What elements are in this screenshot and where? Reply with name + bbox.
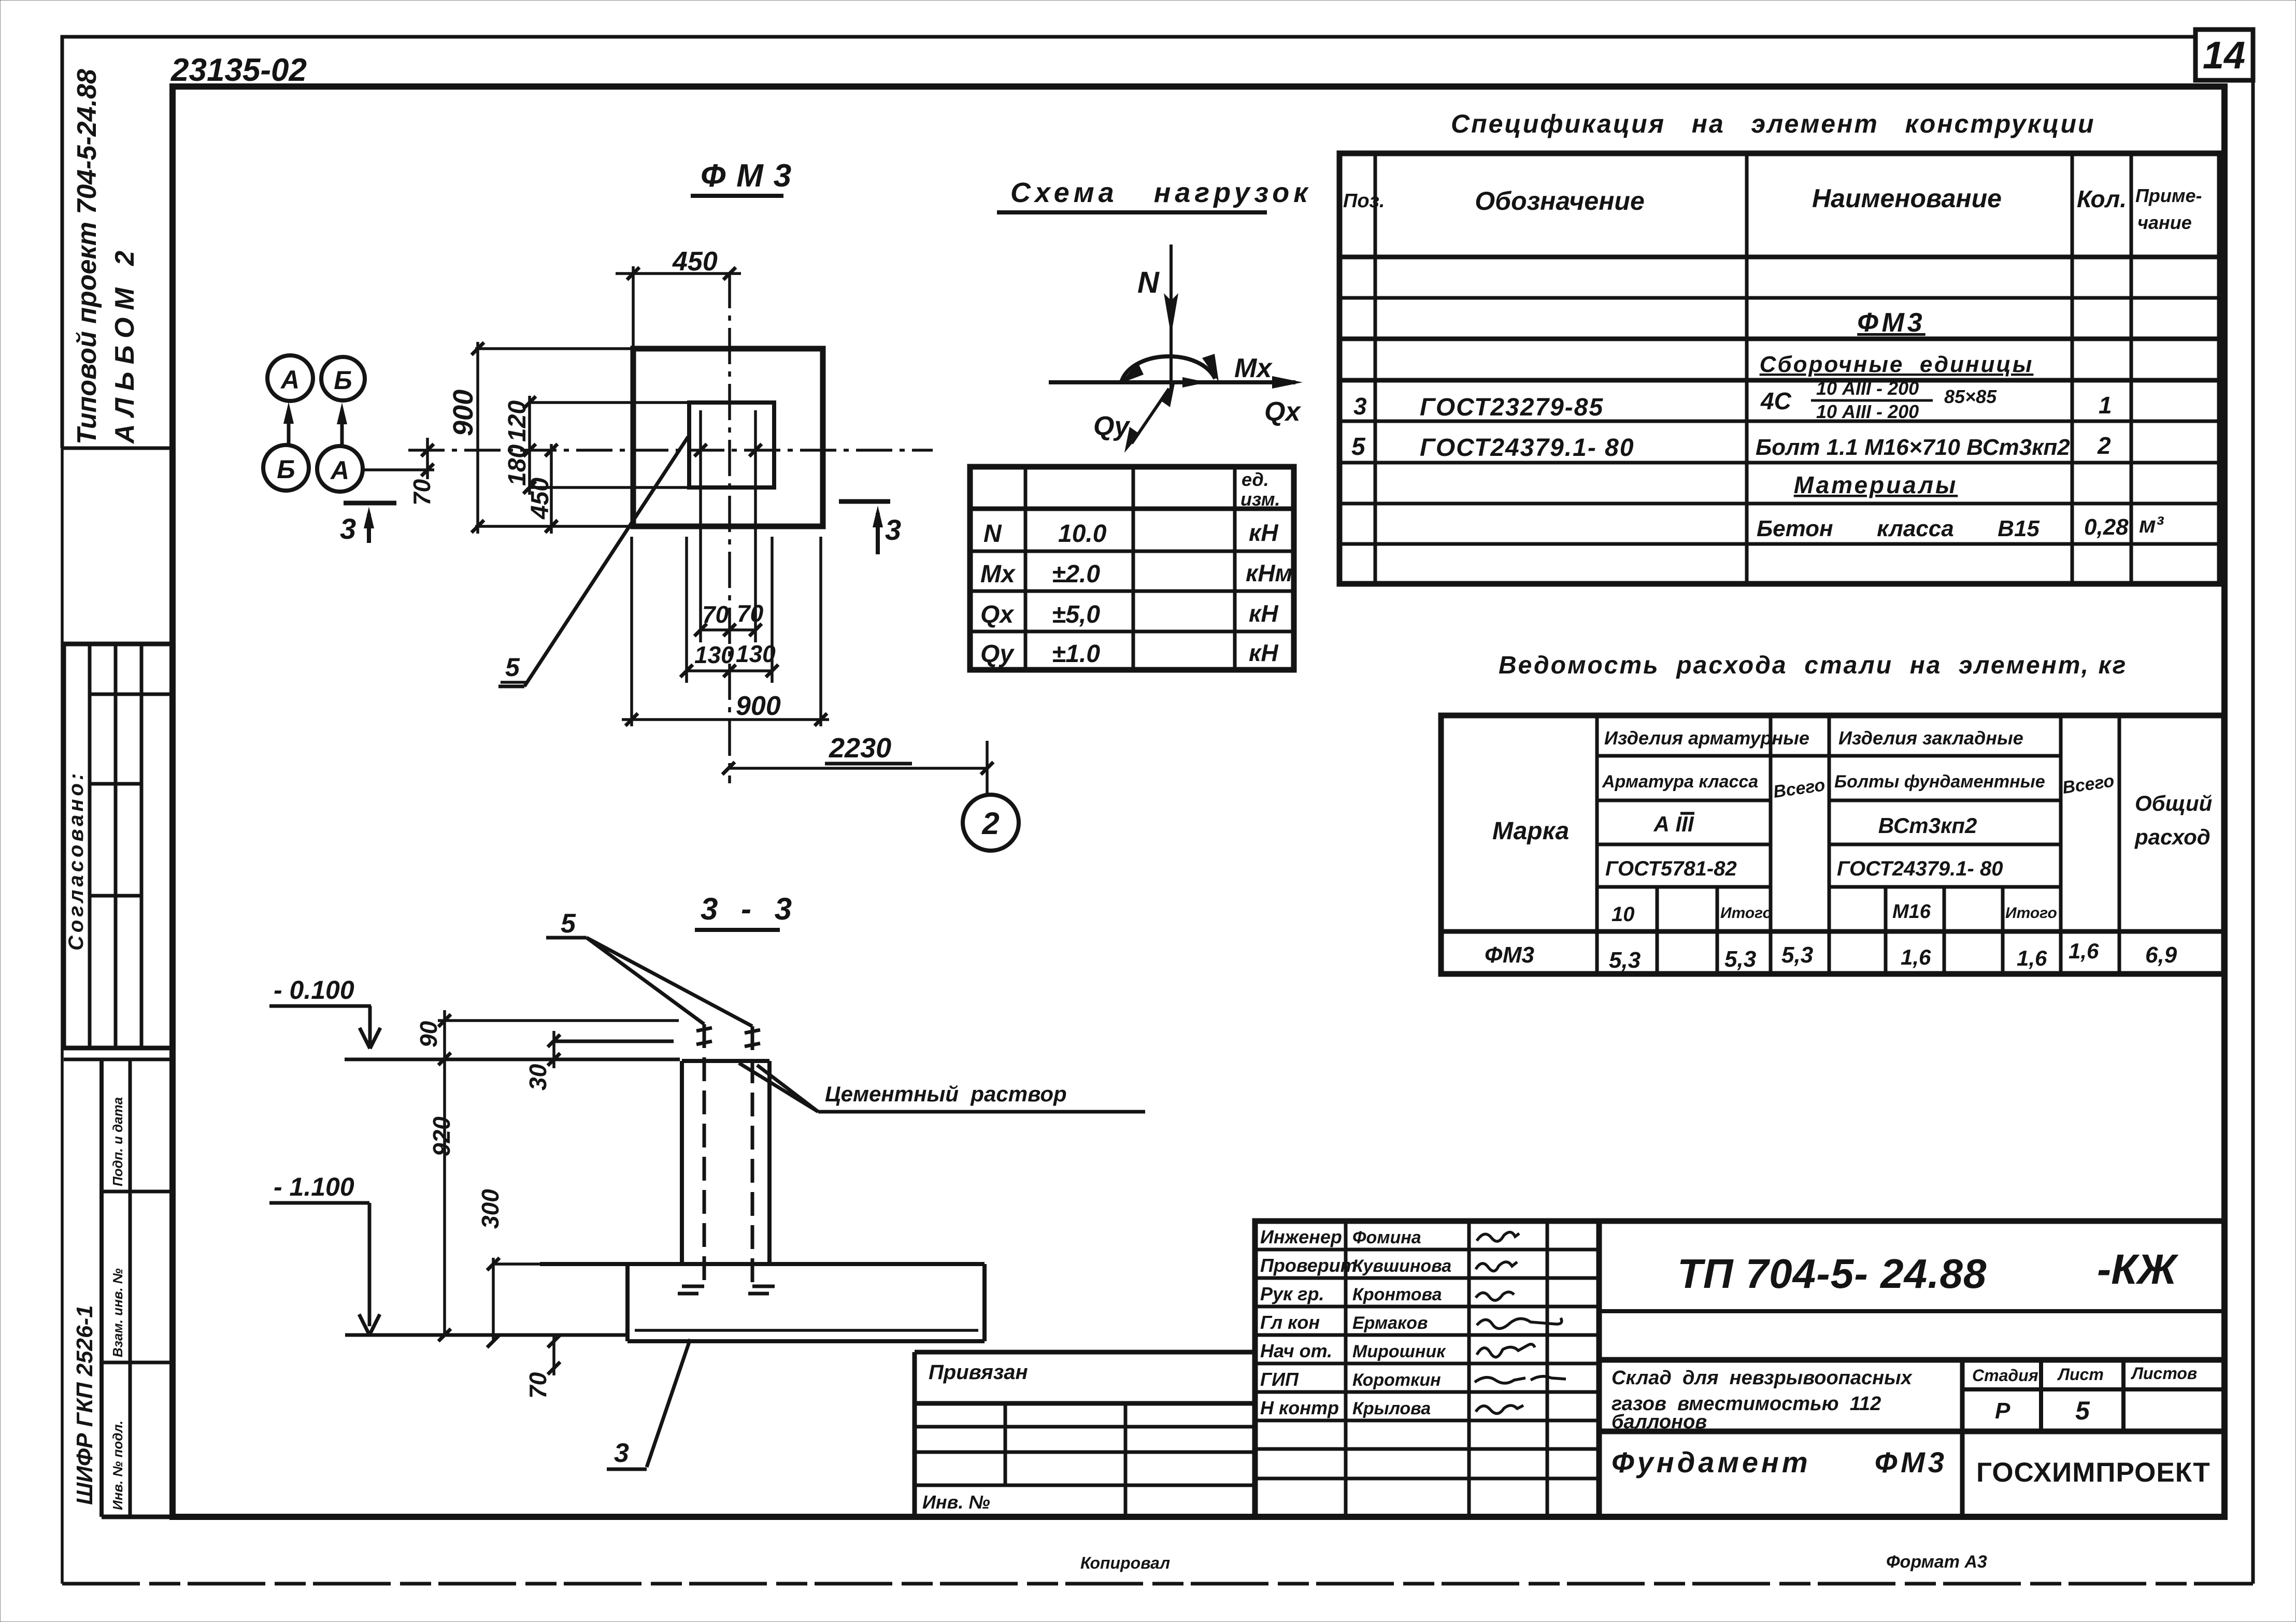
- svg-text:Всего: Всего: [2061, 771, 2116, 798]
- svg-text:Ведомость расхода стали на: Ведомость расхода стали на элемент, кг: [1499, 652, 2127, 679]
- svg-text:Общий: Общий: [2135, 791, 2212, 815]
- privyazan box: [915, 1352, 1255, 1517]
- Qy diagonal double arrow: [1132, 389, 1169, 443]
- dim 130|130: [687, 669, 772, 672]
- svg-text:ГИП: ГИП: [1260, 1369, 1299, 1390]
- svg-text:ШИФР ГКП 2526-1: ШИФР ГКП 2526-1: [72, 1305, 97, 1505]
- N arrow (down): [1170, 245, 1173, 390]
- svg-text:Инв. №: Инв. №: [922, 1491, 990, 1513]
- dims 120/180: [528, 401, 689, 404]
- svg-text:ФМ3: ФМ3: [701, 158, 802, 194]
- svg-text:1: 1: [2099, 392, 2112, 419]
- svg-text:23135-02: 23135-02: [170, 52, 307, 88]
- axis line to circle 2: [986, 741, 989, 795]
- svg-text:Кол.: Кол.: [2077, 185, 2127, 212]
- dim 30: [552, 1031, 555, 1068]
- svg-text:1,6: 1,6: [2017, 946, 2047, 970]
- foundation outline: [633, 349, 823, 526]
- svg-text:Рук гр.: Рук гр.: [1260, 1283, 1324, 1304]
- svg-text:Нач от.: Нач от.: [1260, 1340, 1332, 1361]
- svg-text:ФМ3: ФМ3: [1857, 308, 1925, 338]
- soglasovano stamp: [64, 644, 173, 1048]
- svg-text:А: А: [280, 365, 300, 394]
- big right box: [1599, 1221, 2224, 1517]
- svg-text:120: 120: [504, 400, 531, 442]
- svg-text:расход: расход: [2134, 825, 2211, 849]
- dim 450 top: [632, 266, 635, 349]
- svg-text:N: N: [1137, 266, 1160, 299]
- svg-text:Б: Б: [277, 455, 295, 484]
- svg-text:Привязан: Привязан: [929, 1361, 1028, 1384]
- svg-text:А III: А III: [1653, 812, 1694, 836]
- svg-text:14: 14: [2203, 34, 2245, 77]
- svg-text:-КЖ: -КЖ: [2097, 1246, 2179, 1293]
- svg-text:5,3: 5,3: [1781, 942, 1813, 968]
- svg-text:5: 5: [1351, 433, 1366, 461]
- svg-text:ФМ3: ФМ3: [1485, 942, 1534, 968]
- svg-text:Обозначение: Обозначение: [1475, 186, 1645, 216]
- svg-text:м³: м³: [2139, 512, 2164, 538]
- svg-text:2230: 2230: [829, 733, 891, 764]
- svg-text:М16: М16: [1892, 901, 1931, 923]
- svg-text:А: А: [330, 456, 349, 485]
- svg-text:Мх: Мх: [980, 561, 1016, 588]
- pedestal outline: [689, 403, 774, 487]
- svg-text:450: 450: [526, 478, 554, 520]
- svg-text:2: 2: [2097, 432, 2111, 459]
- 70 dim near circles: [363, 468, 434, 471]
- svg-text:Согласовано:: Согласовано:: [65, 770, 88, 951]
- footing: [540, 1262, 985, 1266]
- svg-text:±5,0: ±5,0: [1052, 601, 1100, 628]
- Mx moment arc: [1121, 356, 1215, 382]
- main drawing frame: [173, 87, 2224, 1517]
- svg-text:2: 2: [981, 806, 999, 841]
- bolt lines: [699, 410, 702, 642]
- svg-text:Арматура класса: Арматура класса: [1602, 772, 1758, 792]
- anchor bolts dashed: [703, 1024, 706, 1286]
- outer sheet border: [62, 37, 2195, 448]
- dim 450 left lower: [550, 444, 553, 534]
- svg-text:Сборочные единицы: Сборочные единицы: [1760, 352, 2034, 377]
- svg-text:0,28: 0,28: [2084, 514, 2129, 540]
- svg-text:920: 920: [428, 1116, 455, 1156]
- dim 900 left: [475, 347, 633, 350]
- svg-text:Взам. инв. №: Взам. инв. №: [110, 1268, 125, 1357]
- svg-text:4С: 4С: [1760, 387, 1792, 414]
- section mark 3 left: [344, 501, 396, 506]
- svg-text:Короткин: Короткин: [1352, 1370, 1441, 1390]
- svg-text:30: 30: [524, 1064, 551, 1090]
- svg-text:5: 5: [2075, 1396, 2090, 1425]
- svg-text:Инв. № подл.: Инв. № подл.: [110, 1420, 125, 1510]
- svg-text:Лист: Лист: [2057, 1365, 2104, 1384]
- svg-text:Итого: Итого: [1720, 905, 1772, 922]
- svg-text:ТП 704-5- 24.88: ТП 704-5- 24.88: [1677, 1251, 1987, 1297]
- svg-text:Наименование: Наименование: [1812, 184, 2002, 213]
- svg-text:Болт 1.1 М16×710 ВСт3кп2: Болт 1.1 М16×710 ВСт3кп2: [1756, 435, 2070, 460]
- svg-text:Типовой проект 704-5-24.88: Типовой проект 704-5-24.88: [72, 69, 102, 444]
- svg-text:70: 70: [524, 1372, 551, 1399]
- svg-text:Qх: Qх: [980, 601, 1015, 628]
- svg-text:5: 5: [505, 653, 520, 682]
- svg-text:5: 5: [561, 909, 576, 939]
- svg-text:Проверит: Проверит: [1260, 1255, 1357, 1276]
- svg-text:1,6: 1,6: [2069, 939, 2099, 963]
- leader 5: [524, 437, 688, 686]
- svg-text:±1.0: ±1.0: [1052, 640, 1100, 668]
- axis circles: [267, 355, 313, 401]
- dim 70|70: [701, 628, 755, 631]
- top dim line at bolt tops: [438, 1019, 679, 1022]
- svg-text:Бетон класса В15: Бетон класса В15: [1757, 516, 2040, 541]
- svg-text:Приме-: Приме-: [2135, 185, 2202, 206]
- svg-text:Поз.: Поз.: [1343, 190, 1385, 212]
- dim 2230: [729, 767, 987, 770]
- dim 300: [492, 1258, 495, 1341]
- svg-text:Болты фундаментные: Болты фундаментные: [1834, 772, 2045, 792]
- svg-text:Р: Р: [1995, 1398, 2010, 1424]
- svg-text:ГОСТ24379.1- 80: ГОСТ24379.1- 80: [1837, 857, 2003, 880]
- svg-text:70: 70: [408, 479, 435, 506]
- svg-text:Qу: Qу: [980, 640, 1015, 668]
- svg-text:10 АIII - 200: 10 АIII - 200: [1816, 378, 1919, 399]
- svg-text:3: 3: [614, 1438, 629, 1468]
- svg-text:300: 300: [477, 1189, 504, 1229]
- svg-text:85×85: 85×85: [1944, 386, 1997, 407]
- svg-text:N: N: [983, 520, 1002, 548]
- dim 90: [443, 1010, 446, 1066]
- svg-text:450: 450: [672, 247, 718, 277]
- svg-text:Склад для невзрывоопасных: Склад для невзрывоопасных: [1612, 1367, 1913, 1389]
- svg-text:Изделия закладные: Изделия закладные: [1838, 727, 2023, 749]
- load table: [970, 467, 1294, 670]
- pedestal: [682, 1059, 769, 1063]
- dim 920: [443, 1066, 446, 1335]
- svg-text:90: 90: [415, 1021, 442, 1047]
- svg-text:Стадия: Стадия: [1972, 1366, 2038, 1385]
- svg-text:Итого: Итого: [2005, 905, 2057, 922]
- level line -1.100: [345, 1333, 629, 1337]
- svg-text:Мирошник: Мирошник: [1352, 1342, 1446, 1361]
- centerline vertical: [728, 272, 731, 783]
- svg-text:3: 3: [1353, 393, 1367, 420]
- svg-text:ГОСТ5781-82: ГОСТ5781-82: [1605, 857, 1737, 880]
- svg-text:3: 3: [340, 512, 356, 545]
- lower stamp: [64, 1058, 173, 1061]
- svg-text:Фомина: Фомина: [1352, 1228, 1421, 1247]
- svg-text:Mx: Mx: [1234, 353, 1273, 383]
- svg-text:Материалы: Материалы: [1794, 471, 1958, 498]
- svg-text:Спецификация на элемент: Спецификация на элемент конструкции: [1451, 109, 2095, 138]
- centerline horizontal: [408, 449, 933, 452]
- svg-text:ВСт3кп2: ВСт3кп2: [1878, 813, 1977, 838]
- svg-text:70: 70: [737, 600, 764, 627]
- svg-text:ГОСХИМПРОЕКТ: ГОСХИМПРОЕКТ: [1976, 1457, 2211, 1488]
- svg-text:- 0.100: - 0.100: [274, 975, 354, 1004]
- svg-text:изм.: изм.: [1240, 489, 1280, 510]
- svg-text:Кронтова: Кронтова: [1352, 1285, 1442, 1304]
- svg-text:900: 900: [736, 691, 781, 721]
- svg-text:3 - 3: 3 - 3: [701, 892, 799, 926]
- svg-text:Марка: Марка: [1492, 817, 1569, 845]
- dim 70 below: [552, 1335, 555, 1375]
- svg-text:130: 130: [694, 641, 734, 668]
- bolt ticks on centerline: [694, 444, 707, 456]
- svg-text:ГОСТ24379.1- 80: ГОСТ24379.1- 80: [1420, 434, 1635, 462]
- svg-text:Б: Б: [334, 366, 352, 395]
- bolt tops thread ticks: [696, 1028, 712, 1031]
- svg-text:кН: кН: [1249, 639, 1278, 666]
- signature table: [1255, 1221, 1599, 1517]
- svg-text:Инженер: Инженер: [1260, 1226, 1342, 1247]
- svg-text:чание: чание: [2137, 212, 2192, 233]
- svg-text:10.0: 10.0: [1058, 520, 1107, 548]
- svg-text:Qx: Qx: [1264, 397, 1301, 427]
- svg-text:Qy: Qy: [1093, 411, 1131, 441]
- svg-text:Н контр: Н контр: [1260, 1397, 1339, 1418]
- axis circle 2: [963, 795, 1019, 851]
- svg-text:Кувшинова: Кувшинова: [1352, 1256, 1451, 1276]
- svg-text:Подп. и дата: Подп. и дата: [110, 1097, 125, 1186]
- Qx axis (right arrow): [1049, 380, 1295, 384]
- svg-text:АЛЬБОМ 2: АЛЬБОМ 2: [110, 243, 140, 444]
- svg-text:Цементный раствор: Цементный раствор: [825, 1082, 1067, 1106]
- level line -0.100: [345, 1058, 680, 1061]
- svg-text:6,9: 6,9: [2145, 942, 2177, 968]
- svg-text:3: 3: [885, 513, 901, 546]
- svg-text:±2.0: ±2.0: [1052, 561, 1100, 588]
- svg-text:Ермаков: Ермаков: [1352, 1313, 1428, 1333]
- svg-text:кН: кН: [1249, 519, 1278, 546]
- section mark 3 right: [839, 499, 890, 504]
- dim 900 bottom: [630, 537, 633, 726]
- svg-text:70: 70: [702, 601, 729, 628]
- svg-text:Копировал: Копировал: [1080, 1554, 1170, 1572]
- svg-text:10 АIII - 200: 10 АIII - 200: [1816, 401, 1919, 422]
- svg-text:Всего: Всего: [1772, 775, 1827, 802]
- svg-text:Изделия арматурные: Изделия арматурные: [1604, 727, 1809, 749]
- svg-text:Крылова: Крылова: [1352, 1399, 1431, 1418]
- svg-text:ГОСТ23279-85: ГОСТ23279-85: [1420, 394, 1604, 421]
- svg-text:5,3: 5,3: [1609, 948, 1641, 973]
- svg-text:900: 900: [448, 390, 479, 436]
- svg-text:ед.: ед.: [1242, 469, 1269, 490]
- svg-text:кНм: кНм: [1246, 559, 1293, 586]
- second line (mortar): [554, 1040, 674, 1043]
- svg-text:кН: кН: [1249, 600, 1278, 627]
- svg-text:- 1.100: - 1.100: [274, 1172, 354, 1201]
- page number box 14: [2195, 30, 2253, 80]
- svg-text:Схема нагрузок: Схема нагрузок: [1010, 177, 1312, 208]
- svg-text:5,3: 5,3: [1724, 946, 1756, 972]
- svg-text:Листов: Листов: [2131, 1364, 2197, 1383]
- svg-text:баллонов: баллонов: [1612, 1411, 1707, 1433]
- svg-text:10: 10: [1612, 903, 1635, 926]
- svg-text:1,6: 1,6: [1901, 945, 1931, 969]
- svg-text:Гл кон: Гл кон: [1260, 1312, 1320, 1333]
- svg-text:Формат А3: Формат А3: [1886, 1552, 1987, 1572]
- svg-text:130: 130: [736, 640, 776, 667]
- svg-text:Фундамент ФМ3: Фундамент ФМ3: [1612, 1446, 1947, 1479]
